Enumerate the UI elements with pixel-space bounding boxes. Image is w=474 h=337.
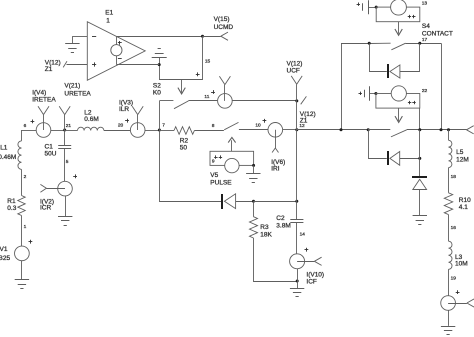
marker fork I(V6) bbox=[272, 148, 278, 153]
antenna marker I(V3) bbox=[132, 106, 143, 114]
plus mark meter 19 bbox=[456, 290, 460, 294]
meter circle I(V10) bbox=[290, 254, 315, 269]
source circle 13 bbox=[391, 0, 407, 15]
resistor R1 bbox=[18, 196, 25, 216]
plus mark V1 bbox=[29, 240, 33, 244]
switch S1 blade bbox=[224, 122, 238, 129]
wire node 7 up to S2 bbox=[159, 101, 161, 130]
svg-text:V(21): V(21) bbox=[64, 82, 80, 89]
svg-text:4.1: 4.1 bbox=[459, 204, 468, 211]
wire R1 to V1 bbox=[21, 216, 23, 247]
wire S4 row to right bus bbox=[441, 43, 443, 130]
label I(V3) ILR bbox=[119, 99, 133, 113]
svg-text:6: 6 bbox=[24, 123, 27, 129]
svg-text:16: 16 bbox=[451, 225, 457, 231]
label L1 0.46M bbox=[0, 144, 16, 161]
label pin 7 bbox=[162, 122, 165, 128]
wire R10 to L3 bbox=[448, 215, 450, 242]
plus mark meter 10 bbox=[263, 119, 267, 123]
svg-text:7: 7 bbox=[162, 122, 165, 128]
label L2 0.6M bbox=[84, 109, 98, 123]
plus mark meter 11 bbox=[211, 90, 215, 94]
svg-text:V(15): V(15) bbox=[214, 16, 230, 23]
wire op-amp output to node 15 bbox=[116, 36, 202, 38]
capacitor C2 bbox=[290, 220, 303, 223]
label C2 3.8M bbox=[276, 215, 290, 229]
battery of coil 13 bbox=[357, 0, 369, 14]
wire L2 to meter 20 bbox=[104, 130, 130, 132]
meter circle I(V4) bbox=[36, 115, 51, 138]
label pin 22 bbox=[422, 88, 428, 94]
svg-text:18: 18 bbox=[451, 174, 457, 180]
wire node 7 to R2 bbox=[159, 130, 174, 132]
marker V(15) UCMD bbox=[203, 32, 229, 40]
svg-text:CONTACT: CONTACT bbox=[422, 31, 453, 38]
diode D2 cathode bar bbox=[387, 64, 389, 78]
label R3 18K bbox=[260, 224, 272, 238]
svg-text:13: 13 bbox=[422, 0, 428, 6]
label V5 PULSE bbox=[210, 172, 232, 187]
op-amp plus input mark bbox=[92, 62, 96, 66]
ground bottom right bbox=[441, 327, 455, 335]
wire node 11 to node 12 bbox=[232, 100, 297, 102]
svg-text:1: 1 bbox=[24, 224, 27, 230]
label pin 13 bbox=[422, 0, 428, 6]
label I(V6) IRI bbox=[271, 159, 285, 172]
svg-text:12: 12 bbox=[299, 123, 305, 129]
label pin 19 bbox=[451, 276, 457, 282]
wire S4 row left bbox=[341, 42, 391, 44]
label pin 6 bbox=[24, 123, 27, 129]
label V(15) UCMD bbox=[214, 16, 234, 31]
wire row2 to L5 bbox=[448, 130, 450, 141]
label C1 50U bbox=[45, 144, 57, 158]
wire battery to box 22 bbox=[369, 93, 376, 95]
marker fork right edge bbox=[467, 126, 474, 134]
svg-text:Z1: Z1 bbox=[45, 66, 53, 73]
junction dot row2 a bbox=[418, 128, 421, 131]
wire meter 19 to ground bbox=[448, 310, 450, 326]
svg-text:K0: K0 bbox=[153, 89, 161, 96]
diode D1 cathode bar bbox=[221, 194, 223, 209]
wire I(V2) to ground bbox=[65, 196, 67, 216]
wire left corner to meter 6 bbox=[22, 130, 37, 132]
marker fork I(V2) bbox=[40, 184, 46, 192]
junction dot op-amp feedback bbox=[158, 63, 161, 66]
diode D4 cathode bar bbox=[412, 176, 427, 178]
antenna marker above node 11 bbox=[219, 76, 230, 84]
diode D3 cathode bar bbox=[387, 151, 389, 165]
label I(V4) IRETEA bbox=[32, 89, 56, 103]
wire battery to box 13 bbox=[368, 7, 376, 9]
svg-text:11: 11 bbox=[204, 94, 209, 100]
wire battery to S2 loop bbox=[159, 58, 161, 80]
wire meter 6 to node 21 bbox=[51, 130, 65, 132]
label I(V2) ICR bbox=[40, 198, 54, 211]
svg-text:B25: B25 bbox=[0, 255, 10, 262]
meter circle I(V2) bbox=[46, 181, 72, 196]
svg-text:10M: 10M bbox=[455, 261, 468, 268]
svg-text:L5: L5 bbox=[456, 149, 464, 156]
junction dot row2 left bbox=[367, 128, 370, 131]
svg-text:19: 19 bbox=[451, 276, 457, 282]
inductor L3 bbox=[448, 241, 452, 269]
wire L1 to R1 bbox=[21, 169, 23, 195]
svg-text:R3: R3 bbox=[260, 224, 269, 231]
source circle V1 bbox=[15, 246, 30, 261]
antenna marker V(21) bbox=[59, 106, 70, 130]
svg-text:UCF: UCF bbox=[287, 67, 300, 74]
inductor L5 bbox=[449, 140, 452, 167]
meter circle node 10 bbox=[268, 123, 283, 149]
svg-text:URETEA: URETEA bbox=[64, 90, 91, 97]
inductor L2 bbox=[78, 127, 104, 130]
wire row2 left bbox=[368, 129, 390, 131]
label L5 12M bbox=[456, 149, 469, 164]
source box V5 bbox=[210, 151, 254, 165]
wire diode to node R3 bbox=[236, 201, 254, 203]
label pin 21 bbox=[66, 123, 72, 129]
wire V1 to ground bbox=[21, 261, 23, 280]
svg-text:ICR: ICR bbox=[40, 205, 52, 212]
svg-text:C2: C2 bbox=[276, 215, 285, 222]
junction dot S4 left bbox=[368, 42, 371, 45]
ground at op-amp minus input bbox=[65, 36, 79, 52]
svg-text:18K: 18K bbox=[260, 232, 272, 239]
svg-text:20: 20 bbox=[118, 122, 124, 128]
wire op-amp bottom to battery bbox=[116, 64, 159, 66]
wire op-amp plus input bbox=[67, 64, 88, 66]
plus marks box 22 bbox=[408, 101, 416, 104]
label pin 18 bbox=[451, 174, 457, 180]
junction dot node 12 upper bbox=[295, 99, 298, 102]
svg-text:9: 9 bbox=[212, 159, 215, 165]
label V(21) URETEA bbox=[64, 82, 91, 97]
arrow S2 actuation bbox=[178, 80, 185, 94]
wire left bus 43-130 bbox=[341, 43, 343, 130]
arrow coil 13 actuation bbox=[395, 22, 402, 36]
wire row2 right bbox=[407, 129, 467, 131]
svg-text:22: 22 bbox=[422, 88, 428, 94]
label S4 CONTACT bbox=[422, 23, 453, 38]
svg-text:0.3: 0.3 bbox=[7, 205, 16, 212]
label pin 10 bbox=[255, 123, 261, 129]
svg-text:ICF: ICF bbox=[306, 278, 317, 285]
svg-text:3.8M: 3.8M bbox=[276, 222, 290, 229]
battery of coil 22 bbox=[359, 86, 370, 101]
label pin 15 bbox=[205, 58, 211, 64]
wire switch to meter 10 bbox=[239, 129, 268, 131]
plus mark I(V10) bbox=[305, 248, 309, 252]
marker fork I(V10) bbox=[314, 257, 321, 265]
label pin 2 bbox=[24, 174, 27, 180]
resistor R3 lead bbox=[253, 201, 255, 217]
plus mark S2 loop bbox=[196, 72, 200, 76]
wire zener branch vertical bbox=[419, 130, 421, 177]
resistor R10 bbox=[444, 193, 452, 215]
label V1 B25 bbox=[0, 246, 10, 262]
junction dot box 13 bbox=[375, 6, 378, 9]
svg-text:0.46M: 0.46M bbox=[0, 154, 16, 161]
junction dot loop 22 right bbox=[418, 157, 421, 160]
label E1 bbox=[105, 9, 113, 24]
label pin 14 bbox=[300, 231, 306, 237]
wire diode loop 17 right bbox=[400, 43, 420, 71]
antenna marker V(12) UCF bbox=[291, 76, 302, 101]
capacitor C1 bbox=[58, 146, 71, 149]
svg-text:5: 5 bbox=[66, 159, 69, 165]
wire to node 12 lower bbox=[254, 201, 297, 203]
op-amp E1 inner source circle bbox=[111, 36, 122, 64]
wire node 12 vertical bbox=[296, 101, 298, 219]
wire V5 box to ground bbox=[253, 165, 255, 173]
label R2 50 bbox=[180, 138, 189, 152]
svg-text:1: 1 bbox=[106, 17, 110, 24]
ground under I(V10) bbox=[290, 289, 304, 297]
svg-text:14: 14 bbox=[300, 231, 306, 237]
wire S2 right contact bbox=[189, 100, 218, 102]
meter circle I(V3) bbox=[130, 115, 145, 138]
source circle 22 bbox=[391, 86, 406, 101]
wire R2 to switch bbox=[194, 130, 224, 132]
wire box 22 right edge down bbox=[419, 108, 421, 130]
label V(12) Z1 at op-amp input bbox=[45, 59, 61, 73]
node tick V(12) Z1 at op-amp input bbox=[63, 61, 67, 67]
svg-text:8: 8 bbox=[212, 123, 215, 129]
wire L3 to meter 19 bbox=[448, 269, 450, 295]
svg-text:IRETEA: IRETEA bbox=[32, 96, 56, 103]
ground under V1 bbox=[15, 280, 29, 289]
resistor R2 bbox=[174, 127, 194, 135]
svg-text:12M: 12M bbox=[456, 157, 469, 164]
plus mark I(V2) bbox=[73, 174, 77, 178]
junction dot V5 box bbox=[252, 164, 255, 167]
label pin 17 bbox=[422, 37, 428, 43]
label I(V10) ICF bbox=[306, 272, 324, 286]
switch S4 blade bbox=[391, 43, 405, 50]
svg-text:17: 17 bbox=[422, 37, 428, 43]
svg-text:2: 2 bbox=[24, 174, 27, 180]
svg-text:ILR: ILR bbox=[119, 106, 129, 113]
junction dot left bus bbox=[340, 128, 343, 131]
label pin 16 bbox=[451, 225, 457, 231]
svg-text:R1: R1 bbox=[7, 198, 16, 205]
junction dot node 12 bbox=[295, 128, 298, 131]
label pin 20 bbox=[118, 122, 124, 128]
plus marks box 13 bbox=[408, 15, 416, 18]
ground under I(V2) bbox=[58, 217, 72, 226]
arrow coil 22 actuation bbox=[395, 108, 402, 122]
op-amp minus input mark bbox=[92, 36, 96, 38]
wire op-amp minus input bbox=[73, 36, 88, 38]
wire diode loop 22 left bbox=[369, 130, 387, 159]
plus mark meter 6 bbox=[31, 120, 35, 124]
wire meter 10 to node 12 bbox=[283, 129, 297, 131]
wire S4 row right bbox=[406, 43, 441, 45]
junction dot node 15 top bbox=[201, 35, 204, 38]
label V(12) UCF bbox=[287, 60, 303, 74]
wire node 12 to node 22 row bbox=[297, 129, 368, 131]
svg-text:L1: L1 bbox=[0, 144, 8, 151]
svg-text:UCMD: UCMD bbox=[214, 24, 234, 31]
wire corner down to L1 bbox=[21, 130, 23, 141]
svg-text:50: 50 bbox=[180, 144, 188, 151]
plus mark meter 20 bbox=[125, 119, 129, 123]
svg-text:V5: V5 bbox=[210, 172, 218, 179]
wire S2 coil loop bbox=[159, 36, 202, 79]
inductor L1 bbox=[18, 141, 22, 170]
wire R3 to corner bbox=[254, 238, 298, 282]
junction dot node 7 bbox=[158, 129, 161, 132]
svg-text:IRI: IRI bbox=[271, 165, 280, 172]
junction dot row2 c bbox=[447, 128, 450, 131]
svg-text:0.6M: 0.6M bbox=[84, 116, 98, 123]
label pin 1 bbox=[24, 224, 27, 230]
label L3 10M bbox=[455, 254, 468, 268]
wire S2 left contact bbox=[159, 100, 173, 102]
junction dot box 22 bbox=[374, 92, 377, 95]
label pin 8 bbox=[212, 123, 215, 129]
wire D4 to ground bbox=[419, 190, 421, 216]
junction dot row2 b bbox=[440, 128, 443, 131]
wire node 7 down and right to diode bbox=[160, 130, 222, 202]
ground under V5 bbox=[246, 174, 260, 183]
junction dot I(V10) bottom bbox=[296, 280, 299, 283]
plus marks V5 box bbox=[214, 155, 222, 158]
source box 13 bbox=[376, 7, 420, 22]
diode D1 bbox=[224, 194, 235, 209]
junction dot node 12 lower bbox=[295, 200, 298, 203]
wire C2 to meter ICF bbox=[296, 223, 298, 254]
label pin 9 bbox=[212, 159, 215, 165]
label R10 4.1 bbox=[459, 197, 471, 211]
diode D2 bbox=[390, 65, 400, 78]
switch K blade bbox=[391, 130, 407, 137]
label pin 5 bbox=[66, 159, 69, 165]
svg-text:10: 10 bbox=[255, 123, 261, 129]
label pin 11 bbox=[204, 94, 209, 100]
svg-text:V1: V1 bbox=[0, 246, 8, 253]
svg-text:R10: R10 bbox=[459, 197, 471, 204]
marker fork node 19 bbox=[467, 299, 474, 307]
source box 22 bbox=[376, 94, 420, 109]
diode D3 bbox=[390, 152, 400, 166]
meter circle node 11 bbox=[218, 85, 233, 109]
meter circle node 19 bbox=[441, 296, 467, 311]
wire meter 20 to node 7 bbox=[145, 130, 159, 132]
label V(12) Z1 mid bbox=[299, 111, 315, 129]
wire node 21 to L2 bbox=[65, 130, 78, 132]
arrow V5 actuation bbox=[228, 137, 235, 151]
ground under D4 bbox=[413, 216, 427, 225]
battery of S2 bbox=[152, 49, 167, 58]
resistor R3 bbox=[250, 217, 258, 238]
wire I(V10) to ground bbox=[297, 269, 299, 288]
svg-text:E1: E1 bbox=[105, 9, 113, 16]
antenna marker I(V4) bbox=[38, 106, 49, 114]
op-amp U1 E1 triangle bbox=[87, 22, 145, 81]
label S2 K0 bbox=[153, 83, 161, 97]
source circle V5 bbox=[225, 158, 239, 172]
wire diode loop 17 left bbox=[370, 43, 387, 71]
svg-text:PULSE: PULSE bbox=[210, 179, 232, 186]
wire diode loop 22 right bbox=[400, 158, 420, 160]
svg-text:50U: 50U bbox=[45, 151, 57, 158]
junction dot R3 top bbox=[252, 200, 255, 203]
svg-text:S4: S4 bbox=[422, 23, 430, 30]
junction dot S4 right bbox=[418, 42, 421, 45]
wire L5 to R10 bbox=[448, 168, 450, 193]
svg-text:21: 21 bbox=[66, 123, 72, 129]
label R1 0.3 bbox=[7, 198, 16, 212]
switch S2 blade bbox=[174, 101, 189, 109]
wire node 21 to C1 bbox=[64, 130, 66, 145]
junction dot node 21 bbox=[63, 129, 66, 132]
wire C1 to meter 5 bbox=[64, 148, 66, 181]
node tick V(12) Z1 mid bbox=[301, 96, 307, 104]
svg-text:15: 15 bbox=[205, 58, 211, 64]
diode D4 bbox=[413, 179, 427, 189]
